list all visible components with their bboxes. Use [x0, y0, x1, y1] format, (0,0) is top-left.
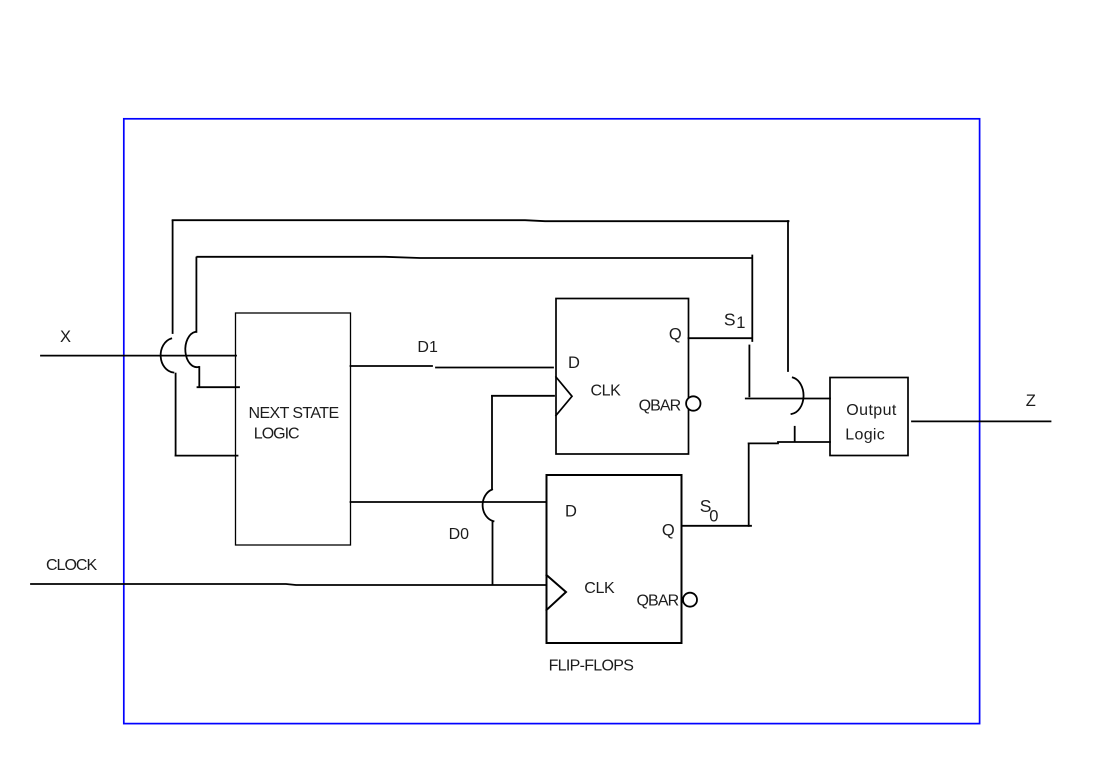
wire CLOCK input	[31, 584, 547, 585]
svg-text:0: 0	[709, 508, 718, 526]
hop of feedback S0 over S1 wire	[792, 378, 804, 415]
svg-text:CLK: CLK	[584, 580, 615, 597]
svg-text:Q: Q	[669, 326, 682, 344]
svg-text:CLOCK: CLOCK	[46, 557, 97, 574]
svg-text:FLIP-FLOPS: FLIP-FLOPS	[549, 658, 634, 675]
wire X input	[41, 355, 236, 357]
svg-text:CLK: CLK	[591, 383, 622, 400]
block NEXT STATE LOGIC	[236, 313, 351, 545]
QBAR bubble FF2	[683, 593, 697, 607]
svg-text:QBAR: QBAR	[639, 397, 681, 414]
wire feedback S0 left vertical upper	[172, 221, 174, 333]
svg-text:Q: Q	[662, 522, 675, 540]
wire S1 vertical to feedback	[751, 256, 753, 342]
svg-text:Z: Z	[1026, 392, 1036, 410]
svg-text:D1: D1	[417, 339, 438, 356]
svg-text:Output: Output	[846, 402, 897, 419]
wire CLK branch vertical upper	[491, 396, 493, 489]
hop of CLK wire over D0	[483, 490, 494, 522]
blue outer border	[124, 119, 980, 724]
svg-text:NEXT STATE: NEXT STATE	[249, 405, 339, 422]
svg-text:D0: D0	[449, 526, 470, 543]
wire S0 horizontal first segment	[749, 442, 778, 444]
svg-text:LOGIC: LOGIC	[254, 425, 299, 442]
wire S1 vertical to output logic	[748, 346, 750, 397]
wire Z output	[912, 420, 1051, 422]
svg-text:QBAR: QBAR	[637, 593, 679, 610]
wire CLK branch horizontal to FF1	[492, 395, 554, 397]
wire Q output of FF1	[689, 337, 752, 339]
wire D1 from next-state logic to FF1 D	[351, 365, 433, 367]
wire feedback S0 left vertical lower	[175, 374, 177, 456]
QBAR bubble FF1	[686, 396, 700, 410]
wire Q output of FF2	[682, 525, 752, 527]
svg-text:D: D	[568, 354, 580, 372]
wire feedback S0 top horizontal	[173, 220, 789, 221]
wire S0 into output logic	[778, 441, 830, 443]
svg-text:S: S	[724, 310, 736, 330]
hop of feedback S0 over X wire	[161, 339, 174, 373]
block flip-flop FF2	[547, 475, 682, 643]
wire feedback S0 right vertical	[787, 221, 789, 371]
clock edge triangle FF1	[556, 377, 572, 415]
wire feedback S0 into next-state logic	[176, 455, 238, 457]
block Output Logic	[830, 378, 908, 456]
svg-text:D: D	[565, 503, 577, 521]
svg-text:X: X	[60, 328, 71, 346]
wire feedback S1 top horizontal	[197, 257, 751, 258]
wire CLK branch vertical lower	[492, 522, 494, 585]
hop of feedback S1 over X wire	[185, 332, 198, 367]
wire feedback S0 below hop	[794, 427, 796, 442]
wire feedback S1 left vertical upper	[195, 258, 197, 332]
wire feedback S1 left vertical lower	[198, 367, 200, 386]
wire S1 into output logic	[746, 398, 830, 400]
wire S0 vertical up	[748, 443, 750, 525]
svg-text:1: 1	[736, 314, 745, 332]
wire feedback S1 into next-state logic	[198, 386, 240, 388]
svg-text:Logic: Logic	[845, 427, 885, 444]
wire D1 second segment	[436, 367, 553, 369]
block flip-flop FF1	[556, 299, 689, 455]
clock edge triangle FF2	[547, 575, 567, 610]
wire D0 from next-state logic to FF2 D	[351, 501, 546, 503]
